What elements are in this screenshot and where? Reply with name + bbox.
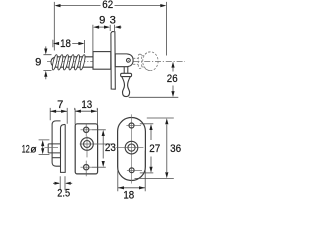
svg-text:27: 27 xyxy=(149,143,160,155)
keeper front center hole xyxy=(81,138,94,151)
screw core xyxy=(56,57,95,67)
dimension 2.5 plate thickness xyxy=(53,176,72,190)
dimension 36 xyxy=(135,118,174,178)
oval bottom screw hole xyxy=(129,168,134,173)
dimension 26 knob drop xyxy=(129,68,179,98)
svg-text:7: 7 xyxy=(57,99,63,111)
svg-text:9: 9 xyxy=(35,56,41,68)
keeper side view outline xyxy=(52,121,60,166)
svg-text:36: 36 xyxy=(170,143,181,155)
dimension 23 xyxy=(92,130,106,167)
svg-text:62: 62 xyxy=(102,0,113,11)
screw tip xyxy=(51,57,55,66)
screw threads xyxy=(51,54,86,70)
phantom knob rotated (dashed) xyxy=(133,52,158,71)
dimension 18 top xyxy=(53,40,85,53)
svg-text:18: 18 xyxy=(60,38,71,50)
dimension 13 xyxy=(75,108,98,111)
dimension 9 screw diameter xyxy=(43,46,51,79)
oval backplate front view xyxy=(118,118,146,181)
dimension 62 xyxy=(54,2,166,56)
oval centerline xyxy=(131,114,133,183)
keeper front view plate xyxy=(75,124,97,174)
oval top screw hole xyxy=(129,123,134,128)
keeper front bottom screw hole xyxy=(84,165,89,170)
dimension 27 xyxy=(140,124,154,173)
svg-text:26: 26 xyxy=(167,73,178,85)
dimension 18 oval width xyxy=(118,151,145,192)
keeper boss xyxy=(48,144,60,153)
svg-text:3: 3 xyxy=(110,14,116,26)
pivot pin circle xyxy=(126,58,130,62)
svg-text:18: 18 xyxy=(123,189,134,200)
keeper boss center tick xyxy=(45,147,59,149)
svg-text:9: 9 xyxy=(99,14,105,26)
dimension 12 diameter xyxy=(39,140,50,155)
backplate side view xyxy=(111,32,115,90)
wire centerline of screw axis xyxy=(47,60,185,62)
oval center hole xyxy=(125,141,138,154)
knob handle xyxy=(124,67,128,74)
keeper side inner step xyxy=(61,124,66,157)
svg-text:12: 12 xyxy=(22,144,30,156)
svg-text:2.5: 2.5 xyxy=(57,188,70,200)
pivot block xyxy=(115,54,133,67)
dimension 7 xyxy=(50,108,67,124)
svg-text:13: 13 xyxy=(81,99,92,111)
svg-text:23: 23 xyxy=(105,142,116,154)
collar bushing xyxy=(93,52,111,70)
svg-text:ø: ø xyxy=(30,145,37,156)
dimension 9 collar and 3 plate xyxy=(93,25,122,51)
keeper front top screw hole xyxy=(84,127,89,132)
